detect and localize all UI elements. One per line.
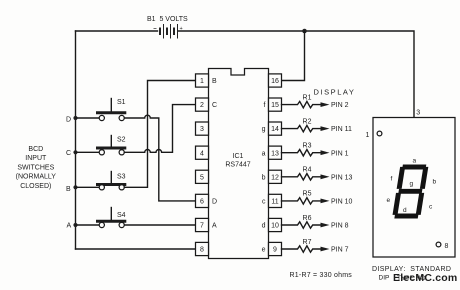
- svg-text:g: g: [262, 126, 266, 133]
- resistor R5: [282, 191, 353, 206]
- node C: [73, 150, 77, 154]
- node D: [73, 116, 77, 120]
- svg-text:11: 11: [271, 199, 278, 206]
- svg-text:b: b: [433, 179, 437, 186]
- pin 16 box: [269, 74, 282, 87]
- svg-text:BCD: BCD: [28, 146, 43, 153]
- svg-text:SWITCHES: SWITCHES: [17, 164, 54, 171]
- 7-segment digit: [392, 165, 429, 219]
- wire: battery positive lead to supply junction: [179, 30, 305, 32]
- svg-text:A: A: [212, 223, 217, 230]
- svg-text:S4: S4: [117, 212, 126, 219]
- wire: battery negative lead (top rail left): [76, 30, 158, 32]
- wire: B row to pin 1 (hop over D vertical): [124, 81, 195, 188]
- svg-text:R2: R2: [303, 118, 312, 125]
- svg-text:PIN 11: PIN 11: [331, 126, 352, 133]
- svg-text:R3: R3: [303, 143, 312, 150]
- switch S4: [76, 208, 127, 228]
- svg-text:9: 9: [273, 247, 277, 254]
- pin 10 box: [269, 218, 282, 231]
- svg-text:R7: R7: [303, 239, 312, 246]
- svg-text:PIN 8: PIN 8: [331, 223, 349, 230]
- resistor R1: [282, 94, 349, 109]
- svg-text:R4: R4: [303, 167, 312, 174]
- pin 12 box: [269, 170, 282, 183]
- pin 4 box: [196, 146, 209, 159]
- wire: supply junction to display pin 3 (down right side): [305, 31, 415, 118]
- svg-text:d: d: [403, 207, 407, 214]
- svg-text:f: f: [391, 176, 393, 183]
- switch S2: [76, 136, 127, 155]
- svg-text:PIN 1: PIN 1: [331, 150, 349, 157]
- svg-text:ElecMC.com: ElecMC.com: [393, 272, 457, 284]
- resistor R6: [282, 215, 349, 230]
- svg-text:12: 12: [271, 174, 279, 181]
- svg-text:B: B: [212, 78, 217, 85]
- pin 6 box: [196, 194, 209, 207]
- wire: ground bus to pin 8: [76, 248, 196, 250]
- battery B1: [147, 16, 188, 39]
- svg-text:S3: S3: [117, 174, 126, 181]
- svg-text:a: a: [413, 158, 417, 165]
- svg-text:8: 8: [200, 247, 204, 254]
- svg-text:CLOSED): CLOSED): [20, 183, 51, 190]
- svg-text:e: e: [387, 197, 391, 204]
- pin 8 box: [196, 242, 209, 255]
- svg-text:g: g: [410, 181, 414, 188]
- svg-text:16: 16: [271, 78, 279, 85]
- pin 15 box: [269, 98, 282, 111]
- svg-text:c: c: [262, 199, 266, 206]
- svg-text:a: a: [262, 150, 266, 157]
- svg-text:PIN 2: PIN 2: [331, 102, 349, 109]
- svg-text:R6: R6: [303, 215, 312, 222]
- node A: [73, 223, 77, 227]
- svg-text:RS7447: RS7447: [225, 162, 250, 169]
- pin 3 box: [196, 122, 209, 135]
- svg-text:3: 3: [416, 110, 420, 117]
- svg-text:5: 5: [200, 174, 204, 181]
- node: supply junction: [302, 29, 307, 34]
- svg-text:D: D: [66, 117, 71, 124]
- svg-text:INPUT: INPUT: [25, 155, 47, 162]
- svg-text:13: 13: [271, 150, 279, 157]
- svg-text:e: e: [262, 247, 266, 254]
- svg-text:A: A: [67, 223, 72, 230]
- label: BCD input switches note: [16, 146, 57, 190]
- pin 7 box: [196, 218, 209, 231]
- pin 11 box: [269, 194, 282, 207]
- resistor R4: [282, 167, 353, 182]
- svg-text:1: 1: [366, 132, 370, 139]
- svg-text:R5: R5: [303, 191, 312, 198]
- svg-text:+: +: [180, 26, 183, 32]
- wire: ground bus (left vertical): [75, 31, 77, 249]
- svg-text:D: D: [212, 199, 217, 206]
- display: 7-segment module box: [373, 118, 455, 258]
- svg-text:4: 4: [200, 150, 204, 157]
- svg-text:PIN 13: PIN 13: [331, 174, 353, 181]
- svg-text:R1: R1: [303, 94, 312, 101]
- svg-text:1: 1: [200, 78, 204, 85]
- switch S3: [76, 172, 127, 190]
- svg-text:B: B: [66, 186, 71, 193]
- svg-text:14: 14: [271, 126, 279, 133]
- node B: [73, 185, 77, 189]
- resistor R7: [282, 239, 349, 254]
- svg-text:10: 10: [271, 223, 279, 230]
- svg-text:3: 3: [200, 126, 204, 133]
- svg-text:S2: S2: [117, 137, 126, 144]
- svg-text:PIN 10: PIN 10: [331, 199, 353, 206]
- pin 9 box: [269, 242, 282, 255]
- svg-text:15: 15: [271, 102, 279, 109]
- svg-text:7: 7: [200, 223, 204, 230]
- resistor R3: [282, 143, 349, 158]
- pin 13 box: [269, 146, 282, 159]
- svg-text:IC1: IC1: [233, 153, 244, 160]
- svg-text:DIP: DIP: [379, 275, 390, 282]
- wire: A row to pin 7: [124, 224, 195, 226]
- resistor R2: [282, 118, 352, 133]
- svg-text:2: 2: [200, 102, 204, 109]
- svg-text:R1-R7 = 330 ohms: R1-R7 = 330 ohms: [290, 272, 353, 279]
- svg-text:C: C: [66, 150, 71, 157]
- pin 2 box: [196, 98, 209, 111]
- pin 14 box: [269, 122, 282, 135]
- svg-text:S1: S1: [117, 99, 126, 106]
- switch S1: [76, 99, 127, 121]
- svg-text:8: 8: [445, 243, 449, 250]
- wire: pin 16 to supply junction: [282, 31, 305, 81]
- pin 5 box: [196, 170, 209, 183]
- svg-text:B1 5 VOLTS: B1 5 VOLTS: [147, 16, 188, 23]
- svg-text:6: 6: [200, 199, 204, 206]
- svg-text:f: f: [264, 102, 266, 109]
- svg-text:DISPLAY: DISPLAY: [314, 88, 356, 97]
- wire: D row to pin 6: [124, 115, 195, 201]
- IC IC1 RS7447 body: [209, 69, 269, 259]
- svg-text:PIN 7: PIN 7: [331, 247, 349, 254]
- svg-text:d: d: [262, 223, 266, 230]
- svg-text:b: b: [262, 174, 266, 181]
- pin 1 circle: [377, 131, 382, 136]
- pin 1 box: [196, 74, 209, 87]
- pin 8 circle: [436, 242, 441, 247]
- svg-text:(NORMALLY: (NORMALLY: [16, 174, 57, 181]
- svg-text:C: C: [212, 102, 217, 109]
- wire: C row to pin 2 (hops over two verticals): [124, 105, 195, 153]
